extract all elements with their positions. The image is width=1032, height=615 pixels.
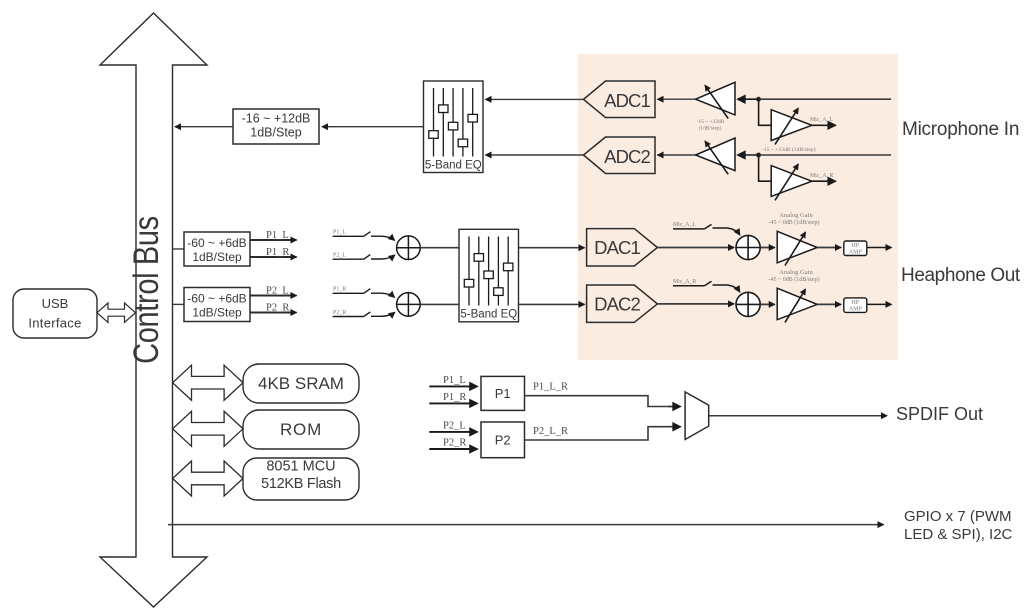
svg-text:Mic_A_L: Mic_A_L (810, 117, 833, 123)
wire EQ1 to gain box (322, 126, 424, 128)
wire HP out R (867, 303, 892, 305)
node mic R (756, 153, 761, 158)
wire ADC1 to EQ1 (486, 98, 584, 100)
wire Mic_A_L out (812, 124, 836, 126)
svg-text:AMP: AMP (849, 307, 863, 313)
svg-text:1dB/Step: 1dB/Step (250, 126, 301, 140)
svg-text:Analog Gain: Analog Gain (779, 269, 813, 276)
wire P2_L (250, 295, 297, 297)
playback gain box 2 (173, 303, 185, 305)
wire P2_L in (429, 431, 477, 433)
wire HP out L (867, 247, 892, 249)
wire P1_L (250, 239, 297, 241)
playback gain box 1 (173, 248, 185, 250)
svg-text:Microphone In: Microphone In (902, 119, 1019, 140)
svg-text:512KB Flash: 512KB Flash (261, 476, 341, 492)
svg-text:1dB/Step: 1dB/Step (192, 250, 242, 264)
svg-text:DAC1: DAC1 (594, 237, 640, 258)
svg-text:DAC2: DAC2 (594, 294, 640, 315)
svg-text:Mic_A_R: Mic_A_R (673, 279, 696, 285)
wire P2_R (250, 312, 297, 314)
svg-text:P1_R: P1_R (443, 392, 466, 403)
wire P1_R in (429, 402, 477, 404)
svg-text:P1_R: P1_R (266, 247, 289, 258)
svg-text:P2_L: P2_L (266, 286, 289, 297)
wire HP mixer L to amp (760, 247, 775, 249)
svg-text:-15 ~ +33dB: -15 ~ +33dB (697, 119, 725, 125)
wire P1_L_R (525, 396, 681, 407)
mic input VGA1 (696, 82, 735, 115)
wire HP mixer R to amp (760, 303, 775, 305)
svg-text:Mic_A_R: Mic_A_R (810, 173, 833, 179)
svg-text:-15 ~ +33dB (1dB/step): -15 ~ +33dB (1dB/step) (762, 146, 816, 153)
analog section highlight (578, 54, 898, 360)
svg-text:SPDIF Out: SPDIF Out (896, 404, 983, 424)
ADC2 (584, 137, 656, 174)
svg-text:P2_R: P2_R (266, 303, 289, 314)
5-band EQ playback (459, 229, 519, 321)
wire gain box to bus (175, 126, 233, 128)
node mic L (756, 97, 761, 102)
HP mixer L (736, 235, 760, 259)
wire GPIO (168, 524, 884, 526)
wire EQ2 to DAC1 (519, 247, 585, 249)
wire mic in R (759, 154, 891, 156)
ADC1 (584, 81, 656, 118)
wire mic R to VGA2 (738, 154, 759, 156)
svg-text:-16 ~ +12dB: -16 ~ +12dB (242, 112, 311, 126)
mic input VGA2 (658, 154, 696, 156)
svg-text:Heaphone Out: Heaphone Out (901, 265, 1021, 286)
svg-text:-60 ~ +6dB: -60 ~ +6dB (187, 292, 246, 306)
HP mixer R (736, 292, 760, 316)
5-band EQ record (424, 81, 484, 173)
control bus arrow (100, 13, 207, 607)
wire amp L to HP AMP (817, 247, 841, 249)
wire Mic_A_R out (812, 180, 836, 182)
svg-text:5-Band EQ: 5-Band EQ (460, 308, 517, 320)
svg-text:-45 ~ 0dB (1dB/step): -45 ~ 0dB (1dB/step) (768, 276, 819, 283)
HP amp L (777, 231, 817, 262)
bus to MCU arrow (173, 461, 243, 496)
svg-text:8051 MCU: 8051 MCU (266, 459, 335, 475)
wire P2_R in (429, 448, 477, 450)
wire amp R to HP AMP (817, 303, 841, 305)
mixer L (397, 236, 421, 260)
svg-text:Control Bus: Control Bus (126, 216, 165, 364)
svg-text:ADC2: ADC2 (604, 146, 650, 167)
wire mixer R to EQ2 (420, 303, 459, 305)
svg-text:P1_L: P1_L (443, 375, 466, 386)
wire SPDIF out (709, 415, 887, 417)
record gain box -16~+12dB (233, 109, 319, 144)
svg-text:P1_L: P1_L (266, 230, 289, 241)
P1 block (481, 376, 525, 410)
svg-text:P1_R: P1_R (333, 287, 346, 293)
svg-text:P2_L: P2_L (443, 421, 466, 432)
svg-text:P2: P2 (495, 433, 511, 448)
wire branch to monitor amp L (759, 99, 772, 125)
svg-text:AMP: AMP (849, 250, 863, 256)
svg-text:P2_R: P2_R (443, 438, 466, 449)
SRAM box (243, 364, 359, 403)
USB to bus double arrow (97, 303, 136, 322)
wire mic L to VGA1 (738, 98, 759, 100)
svg-text:GPIO x 7 (PWM: GPIO x 7 (PWM (904, 508, 1012, 525)
svg-text:HP: HP (851, 243, 859, 249)
USB interface box U1 (13, 289, 97, 338)
svg-text:HP: HP (851, 300, 859, 306)
MCU box (243, 458, 359, 500)
svg-text:ROM: ROM (280, 420, 322, 439)
svg-text:Interface: Interface (28, 316, 81, 331)
SPDIF mux (685, 392, 709, 440)
wire ADC2 to EQ1 (486, 154, 584, 156)
bus to ROM arrow (173, 411, 243, 446)
svg-text:-45 ~ 0dB (1dB/step): -45 ~ 0dB (1dB/step) (768, 219, 819, 226)
svg-text:LED & SPI), I2C: LED & SPI), I2C (904, 526, 1013, 543)
svg-text:P2_R: P2_R (333, 310, 346, 316)
wire mixer L to EQ2 (420, 247, 459, 249)
wire P1_L in (429, 385, 477, 387)
mixer R (397, 293, 421, 317)
monitor amp mic R (771, 166, 812, 197)
wire VGA1 to ADC1 (658, 98, 696, 100)
HP AMP box R (844, 298, 867, 313)
svg-text:P2_L: P2_L (333, 253, 346, 259)
svg-text:1dB/Step: 1dB/Step (192, 306, 242, 320)
P2 block (481, 422, 525, 458)
svg-text:P1_L: P1_L (333, 230, 346, 236)
wire mic in L (759, 98, 891, 100)
bus to SRAM arrow (173, 365, 243, 400)
svg-text:(1dB/step): (1dB/step) (699, 125, 722, 132)
wire branch to monitor amp R (759, 155, 772, 181)
wire P1_R (250, 256, 297, 258)
wire EQ2 to DAC2 (519, 303, 585, 305)
wire DAC2 to HP mixer R (657, 303, 734, 305)
svg-text:Analog Gain: Analog Gain (779, 212, 813, 219)
svg-text:P1: P1 (495, 386, 511, 401)
svg-text:ADC1: ADC1 (604, 90, 650, 111)
svg-text:4KB SRAM: 4KB SRAM (258, 374, 344, 393)
HP amp R (777, 288, 817, 320)
svg-text:USB: USB (42, 296, 69, 311)
svg-text:P2_L_R: P2_L_R (533, 426, 568, 437)
wire P2_L_R (525, 427, 681, 440)
DAC2 (587, 285, 658, 322)
svg-text:-60 ~ +6dB: -60 ~ +6dB (187, 236, 246, 250)
DAC1 (587, 229, 658, 266)
HP AMP box L (844, 241, 867, 256)
svg-text:P1_L_R: P1_L_R (533, 382, 568, 393)
ROM box (243, 410, 359, 449)
svg-text:Mic_A_L: Mic_A_L (673, 222, 696, 228)
monitor amp mic L (771, 110, 812, 141)
wire DAC1 to HP mixer L (657, 247, 734, 249)
svg-text:5-Band EQ: 5-Band EQ (425, 160, 482, 172)
